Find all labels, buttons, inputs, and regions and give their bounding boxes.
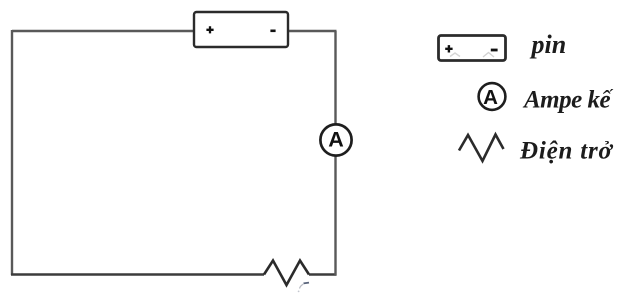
svg-text:A: A bbox=[483, 86, 498, 109]
svg-text:pin: pin bbox=[530, 30, 567, 59]
resistor R (zigzag) bbox=[264, 261, 309, 286]
wire: left vertical bbox=[11, 30, 13, 275]
wire: top right from battery to right corner bbox=[288, 30, 337, 32]
battery B1 plus terminal bbox=[206, 26, 213, 33]
wire: bottom left to resistor bbox=[11, 273, 264, 275]
legend battery plus bbox=[445, 45, 452, 52]
legend resistor zigzag bbox=[459, 135, 504, 162]
legend battery minus bbox=[491, 49, 498, 52]
svg-text:Ampe kế: Ampe kế bbox=[522, 87, 613, 114]
stray mark artifact near resistor bbox=[304, 282, 310, 285]
battery B1 minus terminal bbox=[270, 29, 275, 32]
faint smudge marks inside legend battery bbox=[450, 53, 460, 57]
wire: top-left from battery to left corner bbox=[12, 30, 194, 32]
svg-text:A: A bbox=[328, 128, 344, 152]
wire: resistor to bottom-right corner bbox=[309, 273, 336, 275]
wire: right vertical lower (corner to ammeter) bbox=[334, 155, 336, 276]
battery B1 (pin) rectangle bbox=[194, 12, 288, 47]
legend ammeter circle bbox=[479, 83, 506, 110]
ammeter A1 circle bbox=[320, 124, 351, 155]
wire: right vertical upper (ammeter to top corner) bbox=[334, 31, 336, 125]
legend battery symbol rectangle bbox=[439, 36, 506, 61]
svg-text:Điện trở: Điện trở bbox=[519, 138, 614, 165]
